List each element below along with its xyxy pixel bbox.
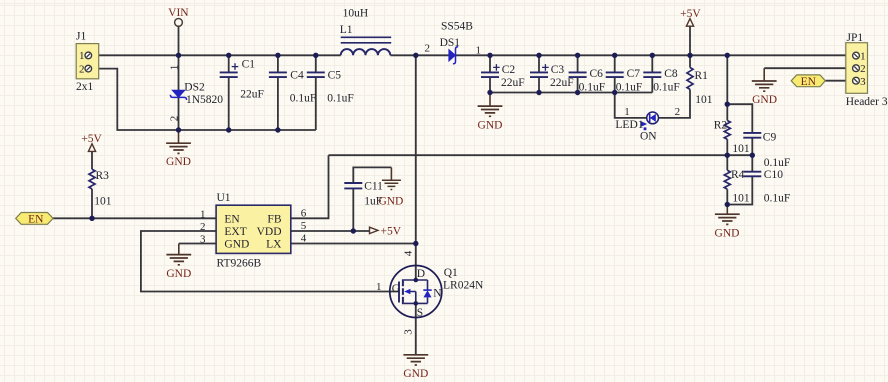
- svg-text:3: 3: [200, 233, 206, 245]
- svg-text:SS54B: SS54B: [441, 20, 473, 32]
- pin 4 label of Q1: [403, 250, 415, 256]
- wire J1 pin2 to bottom rail: [92, 69, 316, 130]
- node junction dots on main rail: [176, 53, 730, 58]
- diode DS1 SS54B: [440, 20, 474, 63]
- pin EXT 2 of U1: [200, 221, 247, 238]
- pin 1 label of Q1 gate: [376, 281, 382, 293]
- svg-text:EN: EN: [224, 214, 240, 226]
- svg-text:L1: L1: [340, 24, 353, 36]
- pin GND 3 of U1: [200, 233, 249, 250]
- svg-text:G: G: [392, 283, 400, 295]
- capacitor C11: [344, 180, 383, 207]
- svg-text:VDD: VDD: [257, 226, 282, 238]
- wire R3 top stem: [91, 151, 93, 169]
- svg-text:C2: C2: [502, 64, 516, 76]
- wire U1 pin2 EXT wrap to Q1 gate: [141, 231, 399, 292]
- svg-text:3: 3: [403, 329, 415, 335]
- wire U1 pin5 VDD to +5V arrow: [291, 230, 370, 232]
- resistor R2: [714, 120, 750, 156]
- wire R4 stems: [726, 155, 728, 204]
- svg-text:0.1uF: 0.1uF: [579, 82, 606, 94]
- svg-text:2: 2: [200, 221, 206, 233]
- power port VIN: [168, 7, 189, 26]
- svg-text:C9: C9: [763, 132, 777, 144]
- pin LX 4 of U1: [266, 233, 307, 251]
- svg-text:N: N: [433, 287, 442, 299]
- svg-text:R4: R4: [731, 169, 745, 181]
- net label EN at left: [16, 213, 53, 226]
- svg-text:LR024N: LR024N: [443, 280, 484, 292]
- capacitor C2: [481, 64, 525, 89]
- svg-text:C1: C1: [242, 58, 256, 70]
- wire EN net to U1 pin1: [53, 217, 216, 219]
- svg-text:101: 101: [732, 193, 750, 205]
- svg-text:GND: GND: [752, 94, 777, 106]
- wire JP1 pin3 to EN port: [825, 80, 852, 82]
- IC U1 RT9266B: [216, 192, 291, 270]
- svg-text:1: 1: [624, 106, 630, 118]
- svg-text:GND: GND: [715, 227, 740, 239]
- resistor R4: [724, 169, 750, 205]
- svg-text:+5V: +5V: [680, 8, 701, 20]
- svg-text:C10: C10: [764, 169, 783, 181]
- wire capacitor bottom rail: [490, 92, 652, 94]
- wire R2 branch from rail: [726, 55, 728, 120]
- pin 1 label of DS2: [168, 65, 180, 71]
- capacitor C5: [307, 69, 354, 104]
- pin 2 of JP1: [853, 63, 866, 75]
- connector JP1: [846, 32, 888, 108]
- wire VIN stem: [178, 26, 180, 55]
- pin 2 of J1: [79, 63, 92, 75]
- svg-text:1: 1: [860, 50, 866, 62]
- svg-text:2x1: 2x1: [76, 81, 94, 93]
- capacitor C1: [220, 58, 264, 100]
- svg-text:+5V: +5V: [381, 226, 402, 238]
- svg-text:1N5820: 1N5820: [186, 94, 223, 106]
- svg-text:2: 2: [168, 116, 180, 122]
- svg-text:C7: C7: [627, 68, 641, 80]
- pin 2 label of LED1: [675, 106, 681, 118]
- svg-text:ON: ON: [640, 131, 657, 143]
- pin 3 label of Q1: [403, 329, 415, 335]
- capacitor C9: [743, 132, 790, 169]
- wire C1 stems: [228, 55, 230, 130]
- ground at C11: [378, 167, 403, 207]
- svg-text:10uH: 10uH: [343, 7, 369, 19]
- power port +5V above R1: [680, 8, 701, 26]
- wire R2 bottom stem: [726, 139, 728, 155]
- svg-text:2: 2: [425, 43, 431, 55]
- svg-text:EN: EN: [801, 76, 817, 88]
- pin 2 label of DS2: [168, 116, 180, 122]
- diode DS2 1N5820: [170, 82, 223, 106]
- svg-text:GND: GND: [224, 238, 249, 250]
- svg-text:Header 3: Header 3: [846, 96, 888, 108]
- svg-text:101: 101: [732, 143, 750, 155]
- resistor R1: [687, 68, 713, 106]
- capacitor C3: [530, 64, 574, 89]
- svg-text:EN: EN: [28, 213, 44, 225]
- svg-text:GND: GND: [166, 268, 191, 280]
- svg-text:C8: C8: [664, 68, 678, 80]
- node junction dots on bottom input rail: [176, 127, 281, 132]
- pin EN 1 of U1: [200, 208, 240, 225]
- svg-text:22uF: 22uF: [240, 89, 264, 101]
- svg-text:1: 1: [475, 44, 481, 56]
- svg-text:R1: R1: [695, 70, 709, 82]
- svg-text:0.1uF: 0.1uF: [764, 193, 791, 205]
- svg-text:0.1uF: 0.1uF: [290, 93, 317, 105]
- svg-text:0.1uF: 0.1uF: [616, 82, 643, 94]
- svg-text:22uF: 22uF: [501, 77, 525, 89]
- svg-text:VIN: VIN: [168, 7, 189, 19]
- wire R1 top stem and +5V stem: [689, 26, 691, 67]
- wire C11 top link to GND: [353, 167, 391, 183]
- net label EN at JP1: [791, 75, 825, 88]
- svg-text:C4: C4: [290, 69, 304, 81]
- capacitor C10: [743, 169, 790, 205]
- pin 1 of JP1: [853, 50, 866, 62]
- transistor Q1 LR024N: [390, 266, 484, 320]
- wire C9 top link: [727, 104, 752, 133]
- wire C2 stems: [489, 55, 491, 92]
- LED LED1: [615, 112, 658, 143]
- ground below R4: [715, 205, 740, 240]
- wire FB feedback line: [329, 154, 753, 156]
- svg-text:1: 1: [200, 208, 206, 220]
- wire LED cathode to R1 bottom: [658, 89, 690, 118]
- capacitor C8: [643, 68, 680, 94]
- svg-text:3: 3: [860, 76, 866, 88]
- svg-text:J1: J1: [76, 31, 86, 43]
- svg-text:GND: GND: [166, 156, 191, 168]
- svg-text:1: 1: [376, 281, 382, 293]
- svg-text:1: 1: [79, 50, 85, 62]
- wire C11 bottom stem: [352, 188, 354, 231]
- svg-text:C11: C11: [364, 180, 383, 192]
- svg-text:101: 101: [695, 94, 713, 106]
- svg-text:4: 4: [301, 233, 307, 245]
- svg-text:6: 6: [301, 207, 307, 219]
- wire U1 pin6 FB up: [291, 155, 329, 218]
- wire main top rail left of L1: [92, 54, 341, 56]
- svg-text:Q1: Q1: [444, 267, 458, 279]
- connector J1: [76, 31, 99, 93]
- svg-text:GND: GND: [478, 119, 503, 131]
- pin VDD 5 of U1: [257, 220, 307, 238]
- inductor L1: [340, 7, 392, 55]
- svg-text:FB: FB: [267, 214, 281, 226]
- pin FB 6 of U1: [267, 207, 306, 225]
- wire C7 stems: [614, 55, 616, 92]
- capacitor C7: [606, 68, 643, 94]
- svg-text:0.1uF: 0.1uF: [764, 157, 791, 169]
- node junction dots misc: [89, 102, 755, 247]
- pin 1 label of LED1: [624, 106, 630, 118]
- wire C9 bottom stem: [751, 138, 753, 155]
- svg-text:RT9266B: RT9266B: [217, 258, 262, 270]
- capacitor C4: [269, 69, 316, 104]
- wire JP1 pin2 to GND: [764, 67, 853, 69]
- svg-text:D: D: [417, 268, 425, 280]
- ground below Q1: [403, 355, 428, 380]
- svg-text:U1: U1: [217, 192, 231, 204]
- wire C6 stems: [577, 55, 579, 92]
- wire U1 pin3 to GND: [179, 243, 216, 245]
- wire LED net from C7 bottom: [615, 93, 647, 118]
- svg-text:S: S: [417, 307, 423, 319]
- wire C8 stems: [651, 55, 653, 92]
- wire C5 stems: [315, 55, 317, 130]
- pin 2 label of DS1: [425, 43, 431, 55]
- svg-text:C5: C5: [328, 69, 342, 81]
- wire switch node vertical to LX and Q1 drain: [415, 55, 417, 280]
- svg-text:LX: LX: [266, 238, 282, 250]
- svg-text:EXT: EXT: [224, 226, 246, 238]
- power port +5V above R3: [81, 133, 102, 151]
- svg-text:2: 2: [79, 63, 85, 75]
- svg-text:R2: R2: [714, 120, 728, 132]
- svg-text:5: 5: [301, 220, 307, 232]
- svg-text:1: 1: [168, 65, 180, 71]
- ground below DS2: [166, 130, 191, 168]
- wire R3 bottom stem: [91, 189, 93, 218]
- ground below C2: [478, 93, 503, 132]
- svg-text:101: 101: [94, 196, 112, 208]
- capacitor C6: [569, 68, 606, 94]
- ground at U1 pin3: [166, 244, 191, 280]
- svg-text:22uF: 22uF: [550, 77, 574, 89]
- svg-text:JP1: JP1: [847, 32, 864, 44]
- wire main top rail right of L1 to JP1 pin1: [390, 54, 852, 56]
- svg-text:0.1uF: 0.1uF: [653, 82, 680, 94]
- svg-text:C6: C6: [590, 68, 604, 80]
- wire Q1 source to GND: [415, 303, 417, 354]
- pin 3 of JP1: [853, 76, 867, 88]
- wire DS2 branch: [178, 55, 180, 130]
- svg-text:C3: C3: [551, 64, 565, 76]
- wire C3 stems: [538, 55, 540, 92]
- svg-text:GND: GND: [403, 368, 428, 380]
- wire C4 stems: [277, 55, 279, 130]
- resistor R3: [89, 169, 112, 207]
- svg-text:2: 2: [675, 106, 681, 118]
- svg-text:R3: R3: [96, 170, 110, 182]
- pin 1 of J1: [79, 50, 92, 62]
- svg-text:DS1: DS1: [440, 37, 461, 49]
- pin 1 label of DS1: [475, 44, 481, 56]
- svg-text:LED1: LED1: [615, 119, 643, 131]
- svg-text:DS2: DS2: [184, 82, 205, 94]
- ground at JP1 pin2: [752, 68, 777, 106]
- svg-text:4: 4: [403, 250, 415, 256]
- svg-text:GND: GND: [378, 196, 403, 208]
- power port +5V arrow at U1 pin5: [370, 226, 402, 238]
- svg-text:2: 2: [860, 63, 866, 75]
- svg-text:0.1uF: 0.1uF: [327, 93, 354, 105]
- node junction dots on capacitor ground rail: [487, 90, 617, 95]
- wire U1 pin4 LX: [291, 243, 416, 245]
- wire C10 stems and bottom link: [727, 155, 752, 204]
